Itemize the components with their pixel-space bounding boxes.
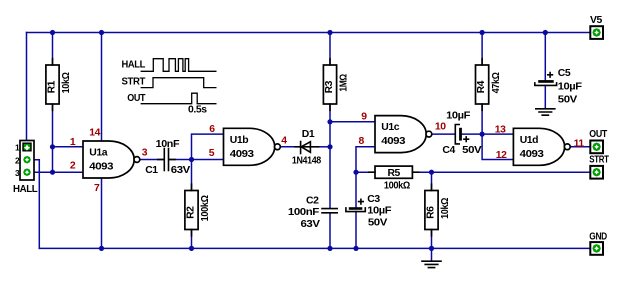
svg-text:10µF: 10µF — [367, 205, 391, 216]
ground under C5 — [536, 109, 555, 115]
svg-text:4093: 4093 — [89, 162, 113, 173]
junction R3/pin9 — [327, 119, 332, 124]
wire R6 top — [431, 172, 433, 190]
svg-text:U1b: U1b — [230, 135, 248, 146]
junction rail C2 — [327, 246, 332, 251]
diode D1 — [292, 129, 322, 166]
junction top rail C5 — [543, 30, 548, 35]
svg-text:R2: R2 — [186, 206, 197, 219]
connector GND — [589, 231, 607, 254]
svg-text:STRT: STRT — [589, 155, 609, 166]
svg-text:100kΩ: 100kΩ — [200, 195, 211, 221]
svg-text:50V: 50V — [368, 218, 388, 229]
connector STRT — [589, 155, 609, 179]
svg-text:HALL: HALL — [122, 59, 146, 70]
svg-text:10kΩ: 10kΩ — [440, 198, 451, 219]
svg-text:50V: 50V — [462, 145, 482, 156]
wire node down and right to U1d pin12 — [482, 134, 513, 159]
svg-text:R5: R5 — [387, 168, 400, 179]
junction pin8/R5/C3 — [353, 170, 358, 175]
svg-text:4: 4 — [281, 135, 287, 146]
svg-text:3: 3 — [15, 168, 20, 178]
timing waveform STRT — [141, 78, 217, 88]
ground under R6 — [422, 261, 441, 267]
resistor R6 — [425, 191, 451, 230]
svg-text:10µF: 10µF — [446, 110, 470, 121]
svg-text:10: 10 — [435, 122, 446, 133]
svg-text:3: 3 — [142, 148, 148, 159]
svg-text:V5: V5 — [590, 15, 603, 26]
svg-text:63V: 63V — [301, 219, 321, 230]
wire U1a pin2 — [53, 171, 84, 173]
svg-text:C2: C2 — [306, 195, 319, 206]
junction top rail R4 — [480, 30, 485, 35]
wire C3 bottom to ground rail — [355, 212, 357, 249]
resistor R2 — [185, 191, 211, 230]
junction D1/C2 — [327, 144, 332, 149]
junction top rail R3 — [327, 30, 332, 35]
resistor R5 — [375, 166, 412, 191]
svg-text:C1: C1 — [145, 165, 158, 176]
wire R4 bottom to pin13 node — [481, 104, 483, 134]
capacitor C2 — [288, 195, 337, 230]
svg-text:U1a: U1a — [89, 148, 107, 159]
wire R2 bottom to ground rail — [191, 230, 193, 249]
svg-text:9: 9 — [361, 111, 367, 122]
wire node up to U1b pin6 — [192, 134, 224, 159]
wire C5 bottom to ground — [544, 85, 546, 108]
op-amp U1d (NAND gate 4093) — [513, 128, 570, 165]
wire top V5 rail — [27, 32, 591, 34]
svg-text:8: 8 — [359, 136, 365, 147]
wire R3 bottom through pin9 and D1 nodes to C2 — [329, 104, 331, 208]
junction rail R6 — [429, 246, 434, 251]
wire R4 top — [481, 33, 483, 66]
resistor R4 — [476, 65, 502, 104]
svg-text:63V: 63V — [171, 165, 191, 176]
svg-text:1: 1 — [70, 137, 76, 148]
junction top rail pin14 — [99, 30, 104, 35]
wire ground stub below rail — [431, 248, 433, 260]
junction R5wire/R6 — [429, 170, 434, 175]
wire C4 to node, U1d pin13 — [462, 133, 514, 135]
timing waveform OUT — [141, 93, 217, 104]
svg-text:100nF: 100nF — [288, 207, 319, 218]
wire node down to R2 — [191, 160, 193, 191]
wire left rail to HALL pin1 — [26, 33, 28, 144]
wire U1c pin8 elbow — [356, 147, 375, 207]
wire node to R5 left — [356, 171, 375, 173]
svg-text:C3: C3 — [367, 194, 380, 205]
wire U1a out to C1 — [140, 159, 164, 161]
svg-text:GND: GND — [589, 231, 607, 242]
wire U1a pin1 — [53, 146, 84, 148]
timing waveform HALL — [141, 59, 217, 72]
svg-text:OUT: OUT — [589, 129, 607, 140]
svg-text:2: 2 — [70, 160, 76, 171]
wire U1c pin9 — [330, 121, 375, 123]
svg-text:OUT: OUT — [127, 93, 146, 104]
pin stubs black resistors — [53, 59, 483, 236]
wire U1c out to C4 — [432, 133, 455, 135]
svg-text:14: 14 — [89, 127, 100, 138]
wire C5 top from rail — [544, 33, 546, 81]
resistor R1 — [46, 65, 72, 104]
svg-text:C5: C5 — [558, 68, 571, 79]
wire R1 bottom to U1a inputs — [52, 104, 54, 172]
connector HALL — [13, 141, 38, 196]
wire U1d out to OUT connector — [570, 146, 590, 148]
wire U1b out to D1 — [280, 146, 295, 148]
svg-text:R3: R3 — [324, 80, 335, 93]
wire HALL pin3 to node — [31, 171, 53, 173]
svg-text:1MΩ: 1MΩ — [339, 74, 350, 92]
junction pin2/pin3 node — [50, 170, 55, 175]
wire bottom ground rail — [39, 247, 590, 249]
capacitor C4 — [442, 110, 481, 156]
svg-text:50V: 50V — [558, 95, 578, 106]
svg-text:100kΩ: 100kΩ — [384, 181, 410, 192]
svg-text:4093: 4093 — [520, 149, 544, 160]
svg-text:4093: 4093 — [381, 136, 405, 147]
svg-text:0.5s: 0.5s — [188, 105, 207, 116]
svg-text:6: 6 — [209, 124, 215, 135]
svg-text:STRT: STRT — [122, 77, 146, 88]
svg-text:HALL: HALL — [13, 184, 38, 195]
op-amp U1b (NAND gate 4093) — [224, 128, 281, 165]
svg-text:4093: 4093 — [230, 149, 254, 160]
junction rail R2 — [189, 246, 194, 251]
svg-text:10nF: 10nF — [156, 139, 179, 150]
wire R1 top — [52, 33, 54, 66]
svg-text:12: 12 — [496, 150, 507, 161]
capacitor C5 — [535, 68, 582, 106]
capacitor C3 — [346, 194, 391, 229]
op-amp U1a (NAND gate 4093) — [83, 141, 140, 178]
wire C1 to node, U1b pin5 — [169, 159, 223, 161]
svg-text:10kΩ: 10kΩ — [61, 72, 72, 93]
svg-text:10µF: 10µF — [558, 82, 582, 93]
wire D1 to node column — [319, 146, 331, 148]
wire R3 top — [329, 33, 331, 66]
svg-text:47kΩ: 47kΩ — [491, 72, 502, 93]
junction rail C3 — [353, 246, 358, 251]
wire U1a pin14 to rail — [101, 33, 103, 142]
svg-text:5: 5 — [209, 148, 215, 159]
svg-text:2: 2 — [15, 155, 20, 165]
svg-text:U1d: U1d — [520, 135, 538, 146]
svg-text:7: 7 — [94, 183, 100, 194]
junction rail pin7 — [99, 246, 104, 251]
junction R1/pin1 — [50, 144, 55, 149]
svg-text:1: 1 — [15, 143, 20, 153]
svg-text:1N4148: 1N4148 — [292, 155, 322, 166]
svg-text:U1c: U1c — [381, 122, 399, 133]
svg-text:R1: R1 — [47, 80, 58, 93]
connector OUT — [589, 129, 607, 153]
capacitor C1 — [145, 139, 190, 176]
wire R6 bottom to ground rail — [431, 230, 433, 249]
junction C1/R2/U1b node — [189, 157, 194, 162]
timing diagram labels — [122, 59, 208, 115]
junction top rail R1 — [50, 30, 55, 35]
svg-text:11: 11 — [574, 138, 585, 149]
wire R5 right to STRT connector — [412, 171, 590, 173]
wire HALL pin2 elbow to ground rail — [31, 160, 39, 249]
svg-text:C4: C4 — [442, 145, 455, 156]
svg-text:D1: D1 — [302, 129, 315, 140]
connector V5 — [590, 15, 603, 39]
svg-text:13: 13 — [495, 125, 506, 136]
svg-text:R6: R6 — [426, 206, 437, 219]
wire C2 bottom to ground rail — [329, 214, 331, 249]
svg-text:R4: R4 — [476, 80, 487, 93]
wire U1a pin7 to ground rail — [101, 178, 103, 248]
junction C4/R4/pin13 — [480, 132, 485, 137]
op-amp U1c (NAND gate 4093) — [375, 116, 432, 153]
resistor R3 — [323, 65, 349, 104]
